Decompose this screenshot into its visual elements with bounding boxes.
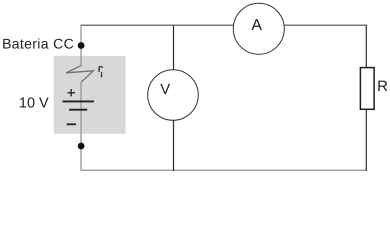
battery plate long (+)	[63, 100, 94, 102]
wire top right (ammeter to R branch)	[284, 24, 367, 26]
wire through battery	[80, 82, 82, 170]
wire left vertical upper (corner to battery)	[80, 25, 82, 66]
wire voltmeter branch upper	[173, 25, 175, 70]
svg-text:V: V	[160, 82, 170, 98]
svg-text:R: R	[377, 78, 388, 95]
node dot bottom	[78, 143, 85, 150]
battery plate short (-)	[69, 109, 87, 111]
svg-text:A: A	[251, 17, 262, 34]
plus sign	[68, 89, 76, 96]
battery body shaded box	[54, 56, 126, 134]
wire voltmeter branch lower	[173, 120, 175, 171]
voltmeter V circle	[148, 70, 199, 121]
wire right branch upper	[365, 25, 367, 67]
resistor R box	[360, 68, 374, 110]
minus sign	[67, 123, 76, 125]
label r_i	[99, 66, 102, 77]
svg-text:Bateria CC: Bateria CC	[2, 36, 74, 52]
node dot top (Bateria CC junction)	[78, 42, 85, 49]
ammeter circle	[233, 3, 284, 54]
wire top left (node to ammeter)	[81, 24, 234, 26]
wire right branch lower	[365, 109, 367, 171]
wire bottom	[81, 169, 367, 171]
svg-text:10 V: 10 V	[19, 96, 49, 112]
resistor r_i zigzag	[66, 66, 93, 83]
